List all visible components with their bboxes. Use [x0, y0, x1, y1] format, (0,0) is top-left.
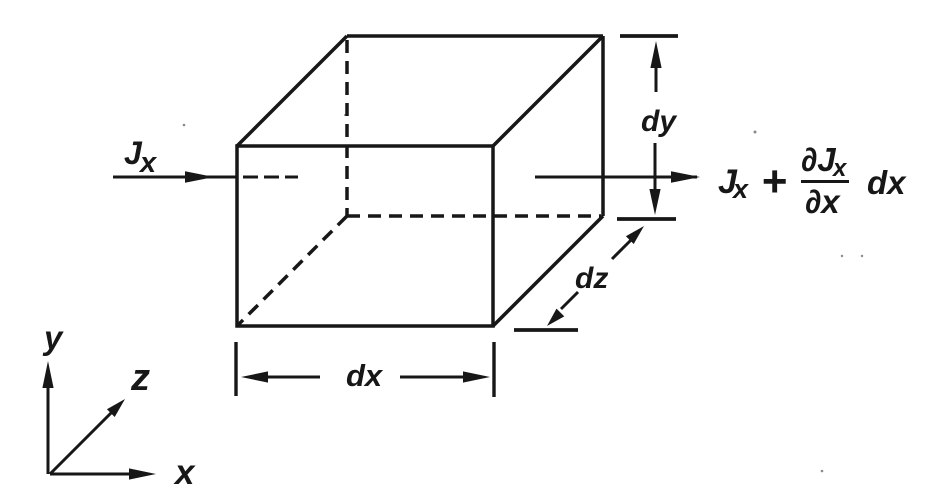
- box back-right edge: [601, 36, 605, 216]
- dimension dy top tick: [620, 34, 678, 38]
- hidden back-bottom edge (dashed): [347, 214, 601, 218]
- label Jx (inflow): [124, 135, 158, 179]
- svg-text:dx: dx: [867, 164, 907, 201]
- axis y arrow: [42, 361, 53, 474]
- svg-text:∂x: ∂x: [805, 183, 841, 220]
- svg-text:x: x: [138, 147, 158, 179]
- inflow hidden continuation (dashed): [243, 176, 298, 179]
- hidden back-left edge (dashed): [345, 40, 349, 216]
- svg-text:x: x: [831, 155, 848, 182]
- svg-text:+: +: [761, 157, 787, 206]
- hidden bottom-left edge (dashed): [237, 216, 347, 326]
- box top-right edge: [493, 36, 603, 146]
- box top-left edge: [237, 36, 347, 146]
- svg-text:x: x: [731, 174, 749, 204]
- outflow arrow: [535, 171, 700, 183]
- svg-text:x: x: [173, 453, 196, 492]
- svg-text:dx: dx: [346, 358, 384, 393]
- dimension dz lower tick: [514, 328, 578, 332]
- dimension dx right tick: [492, 342, 495, 397]
- dimension dy bottom tick / dz upper tick: [617, 217, 676, 221]
- dimension dy upper arrow (points up): [650, 41, 661, 92]
- dimension dz upper arrow (points up-right): [612, 226, 644, 259]
- svg-text:z: z: [130, 357, 150, 399]
- dimension dx left arrow (points left): [241, 371, 320, 382]
- axis z arrow: [50, 399, 125, 474]
- box back-top edge: [347, 34, 603, 38]
- inflow arrow Jx: [113, 171, 237, 183]
- box front face: [237, 146, 493, 326]
- box bottom-right edge: [493, 216, 603, 326]
- svg-text:y: y: [42, 319, 64, 356]
- dimension dy lower arrow (points down): [649, 143, 660, 215]
- dimension dx right arrow (points right): [400, 371, 490, 382]
- svg-text:dy: dy: [641, 105, 677, 138]
- dimension dz lower arrow (points down-left): [547, 292, 578, 326]
- label Jx + dJx/dx dx (outflow): [718, 141, 907, 220]
- dimension dx left tick: [234, 342, 237, 396]
- svg-text:dz: dz: [575, 262, 608, 295]
- svg-text:∂J: ∂J: [801, 141, 836, 178]
- axis x arrow: [50, 468, 156, 479]
